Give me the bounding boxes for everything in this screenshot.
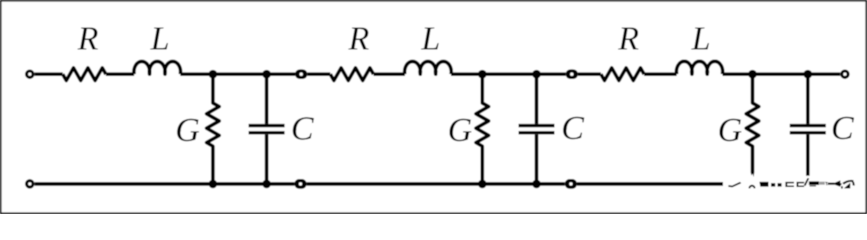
terminal: node B top xyxy=(566,69,578,79)
wire: bottom rail, node B to watermark gap xyxy=(577,182,723,186)
inductor L3 xyxy=(676,61,722,74)
terminal: node A bottom xyxy=(294,179,306,189)
inductor L2 xyxy=(405,61,452,74)
terminal: output top xyxy=(842,71,848,77)
svg-text:C: C xyxy=(291,111,314,148)
svg-text:C: C xyxy=(561,110,584,147)
wire: R2 to L2 xyxy=(374,72,405,76)
terminal: node A top xyxy=(295,69,307,79)
wire: R3 to L3 xyxy=(644,72,677,76)
wire fragment: bottom rail block xyxy=(759,182,768,187)
node: C2 top junction xyxy=(532,70,541,79)
node: C1 bottom junction xyxy=(262,180,271,189)
conductance G1 xyxy=(207,74,220,184)
wire: R1 to L1 xyxy=(106,72,134,76)
svg-text:G: G xyxy=(718,112,743,149)
wire fragment: bottom rail bar with specks xyxy=(809,181,819,186)
resistor R3 xyxy=(601,68,644,81)
wire: top rail, L1 to node A xyxy=(180,72,295,76)
svg-text:L: L xyxy=(691,21,711,58)
wire fragment: watermark slash 2 xyxy=(804,178,809,186)
resistor R2 xyxy=(330,68,373,81)
wire fragment: watermark slash on bottom rail xyxy=(732,182,742,187)
wire fragment: arrow bar xyxy=(825,182,835,185)
terminal: node B bottom xyxy=(565,179,577,189)
node: C2 bottom junction xyxy=(532,180,541,189)
wire fragment: bottom rail open box 1 xyxy=(785,182,794,187)
wire fragment: arrow head xyxy=(835,180,842,186)
conductance G2 xyxy=(476,74,489,184)
svg-text:L: L xyxy=(150,21,170,58)
wire fragment: bottom rail dash 1 xyxy=(771,183,775,186)
wire fragment: watermark tick on bottom rail xyxy=(728,185,732,187)
node: G2 top junction xyxy=(478,70,487,79)
capacitor C1 xyxy=(249,74,285,184)
svg-text:R: R xyxy=(617,21,639,58)
wire: top rail, node B to R3 xyxy=(578,72,601,76)
wire fragment: G3 bottom junction dot remnant arc xyxy=(749,185,756,188)
wire fragment: faint bar xyxy=(819,182,825,185)
capacitor C3 (lower lead cut by watermark) xyxy=(790,74,826,176)
terminal: input bottom xyxy=(27,181,33,187)
node: G1 bottom junction xyxy=(209,180,218,189)
conductance G3 (lower lead cut by watermark) xyxy=(746,74,759,172)
node: C3 top junction xyxy=(804,70,813,79)
wire: top rail, node A to R2 xyxy=(307,72,330,76)
capacitor C2 xyxy=(519,74,555,184)
wire: bottom rail, input to node A xyxy=(35,182,295,186)
svg-text:L: L xyxy=(420,21,440,58)
wire: top rail, L3 to output xyxy=(723,72,841,76)
wire: top rail, L2 to node B xyxy=(451,72,566,76)
wire: bottom rail, node A to node B xyxy=(307,182,565,186)
svg-text:R: R xyxy=(348,21,370,58)
wire fragment: bottom rail open box 2 xyxy=(797,182,805,187)
wire fragment: output terminal remnant top arc xyxy=(842,180,853,185)
wire fragment: output terminal remnant triangle xyxy=(844,183,850,189)
terminal: input top xyxy=(27,71,33,77)
wire fragment: bottom rail dash 2 xyxy=(778,183,782,186)
resistor R1 xyxy=(63,68,106,81)
wire: top rail, input to R1 xyxy=(35,72,63,76)
svg-text:G: G xyxy=(175,112,200,149)
svg-text:R: R xyxy=(77,21,99,58)
node: C1 top junction xyxy=(262,70,271,79)
node: G2 bottom junction xyxy=(478,180,487,189)
node: G3 top junction xyxy=(748,70,757,79)
inductor L1 xyxy=(134,61,181,74)
node: G1 top junction xyxy=(209,70,218,79)
wire fragment: G3 lead arrow tip remnant xyxy=(751,172,755,177)
wire fragment: output terminal remnant right arc xyxy=(852,182,855,186)
svg-text:G: G xyxy=(448,112,473,149)
svg-text:C: C xyxy=(831,110,854,147)
